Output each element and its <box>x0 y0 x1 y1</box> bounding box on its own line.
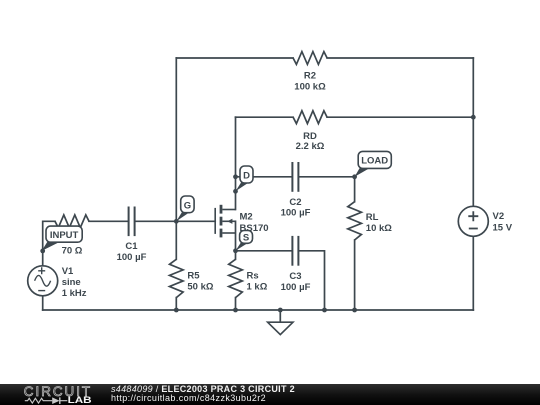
svg-text:C2: C2 <box>289 197 301 208</box>
junction Rs bottom <box>233 308 238 313</box>
voltage source V1 sine <box>28 266 58 296</box>
svg-text:S: S <box>243 232 249 243</box>
wire V1 bottom lead <box>42 296 44 310</box>
svg-text:LAB: LAB <box>68 395 92 405</box>
footer title text <box>111 384 295 403</box>
wire Rs to bottom rail <box>235 298 237 310</box>
svg-text:Rs: Rs <box>247 271 259 282</box>
resistor RL 10k <box>348 202 362 240</box>
footer bar <box>0 384 540 405</box>
svg-text:R5: R5 <box>187 271 200 282</box>
svg-text:D: D <box>243 170 250 181</box>
wire LOAD node to RL <box>354 177 356 202</box>
svg-text:100 µF: 100 µF <box>281 208 311 219</box>
junction INPUT anchor <box>40 249 45 254</box>
wire RD left lead (drain vertical to RD) <box>236 116 294 118</box>
svg-text:RL: RL <box>366 212 379 223</box>
wire C2 left lead (drain to C2) <box>236 176 293 178</box>
wire left vertical lower (R5 to bottom rail) <box>175 298 177 310</box>
wire RL to bottom rail <box>354 240 356 310</box>
svg-text:LOAD: LOAD <box>361 156 388 167</box>
wire RD right lead <box>327 116 473 118</box>
svg-text:V1: V1 <box>62 266 74 277</box>
resistor R2 100k (top) <box>293 52 327 65</box>
svg-text:sine: sine <box>62 277 81 288</box>
svg-text:100 kΩ: 100 kΩ <box>294 82 326 93</box>
wire C3 left lead (S node to C3) <box>236 250 293 252</box>
ground <box>268 322 293 334</box>
junction drain-C2 <box>233 174 238 179</box>
svg-text:100 µF: 100 µF <box>281 282 311 293</box>
svg-text:M2: M2 <box>240 211 253 222</box>
resistor R5 50k <box>170 259 184 297</box>
capacitor C1 100uF <box>129 207 135 237</box>
wire top rail left (R2 left lead) <box>176 57 293 59</box>
wire drain vertical <box>235 117 237 209</box>
svg-text:1 kΩ: 1 kΩ <box>247 282 268 293</box>
wire C3 right lead and drop to bottom rail <box>298 251 324 310</box>
resistor Rs 1k <box>229 259 243 297</box>
svg-text:50 kΩ: 50 kΩ <box>187 282 213 293</box>
wire left vertical upper (top rail to R5) <box>175 58 177 259</box>
svg-text:1 kHz: 1 kHz <box>62 288 87 299</box>
node G flag <box>176 196 194 221</box>
svg-text:G: G <box>184 200 191 211</box>
svg-text:2.2 kΩ: 2.2 kΩ <box>296 141 325 152</box>
wire ground stem <box>279 310 281 322</box>
wire V1 top lead <box>43 221 55 265</box>
node INPUT flag <box>42 226 82 251</box>
wire source vertical (MOSFET to S node and Rs) <box>235 221 237 259</box>
capacitor C2 100uF <box>292 162 298 192</box>
footer CircuitLab logo <box>24 384 92 405</box>
svg-text:100 µF: 100 µF <box>117 252 147 263</box>
node D flag <box>236 166 254 191</box>
wire bottom rail <box>43 309 474 311</box>
svg-text:C1: C1 <box>125 241 138 252</box>
node LOAD flag <box>355 151 392 176</box>
node S flag <box>236 231 253 251</box>
resistor 70ohm (source resistance) <box>55 215 89 228</box>
junction LOAD node <box>352 174 357 179</box>
wire right vertical upper (top rail to V2) <box>472 58 474 206</box>
resistor RD 2.2k <box>293 111 327 124</box>
svg-text:V2: V2 <box>493 211 505 222</box>
transistor M2 BS170 <box>215 205 235 238</box>
junction D anchor <box>233 189 238 194</box>
junction S node <box>233 248 238 253</box>
wire top rail right (R2 right lead) <box>327 57 473 59</box>
svg-text:C3: C3 <box>289 271 301 282</box>
svg-text:http://circuitlab.com/c84zzk3u: http://circuitlab.com/c84zzk3ubu2r2 <box>111 393 266 403</box>
svg-text:10 kΩ: 10 kΩ <box>366 223 392 234</box>
wire 70ohm to C1 <box>89 220 128 222</box>
junction G node <box>174 219 179 224</box>
junction RL bottom <box>352 308 357 313</box>
junction R5 bottom <box>174 308 179 313</box>
wire right vertical lower (V2 to bottom rail) <box>472 236 474 310</box>
wire C2 right lead (C2 to LOAD node) <box>298 176 354 178</box>
voltage source V2 15V <box>458 206 488 236</box>
svg-text:15 V: 15 V <box>493 223 513 234</box>
junction C3 bottom <box>322 308 327 313</box>
junction ground rail <box>278 308 283 313</box>
junction RD right <box>471 115 476 120</box>
wire C1 to MOSFET gate <box>136 220 216 222</box>
capacitor C3 100uF <box>292 236 298 266</box>
svg-text:INPUT: INPUT <box>50 230 79 241</box>
svg-text:70 Ω: 70 Ω <box>62 246 83 257</box>
svg-text:R2: R2 <box>304 71 316 82</box>
